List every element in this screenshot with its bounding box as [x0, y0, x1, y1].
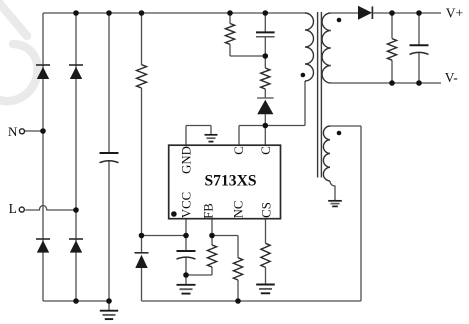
node V- junctions [389, 80, 395, 86]
svg-text:GND: GND [179, 146, 193, 174]
wire second bridge column [75, 13, 77, 301]
diode bridge D1 [36, 64, 50, 66]
resistor FB upper [233, 258, 242, 280]
wire VCC pin stub [185, 219, 187, 251]
wire bottom-left rail [43, 300, 109, 302]
svg-text:L: L [9, 201, 17, 216]
wire VCC bus [142, 235, 187, 237]
wire left bridge column [42, 13, 44, 301]
node drain [263, 123, 269, 129]
node top rail junctions [73, 10, 79, 16]
svg-text:CS: CS [259, 202, 273, 218]
resistor CS sense [261, 243, 270, 267]
resistor FB lower [207, 245, 216, 267]
ground aux winding [328, 200, 342, 202]
diode bridge D3 [36, 238, 50, 240]
wire V- rail [331, 82, 441, 84]
wire snubber resistor leg [229, 13, 231, 24]
wire output cap legs [418, 13, 420, 45]
wire VCC cap bottom [185, 258, 187, 285]
resistor snubber R [225, 24, 234, 45]
svg-text:V+: V+ [446, 6, 463, 21]
wire FB ground link [186, 274, 212, 276]
svg-text:N: N [8, 124, 18, 139]
diode VCC rectifier [135, 252, 149, 254]
node N junction [40, 128, 46, 134]
svg-text:V-: V- [445, 70, 459, 85]
diode bridge D4 [69, 238, 83, 240]
capacitor output C [410, 44, 429, 46]
wire aux top lead [330, 125, 361, 127]
node FB ground [183, 272, 189, 278]
wire aux return riser [360, 126, 362, 301]
transformer aux winding [323, 126, 330, 181]
op-amp U1 S713XS controller IC body [169, 145, 281, 219]
resistor startup R [137, 65, 147, 88]
ground CS resistor [256, 284, 275, 286]
resistor clamp series R [261, 68, 270, 89]
wire snubber bottom link [230, 55, 265, 57]
wire N input [25, 130, 43, 132]
wire startup column [141, 13, 143, 65]
node V+ junctions [389, 10, 395, 16]
transformer primary winding [305, 13, 314, 81]
node FB rail [235, 298, 241, 304]
ground bulk rail [100, 310, 118, 312]
wire bulk cap column top [108, 13, 110, 153]
transformer secondary phase dot [337, 18, 342, 23]
wire FB upper resistor to rail [237, 280, 239, 301]
diode clamp D [257, 97, 274, 99]
wire FB bus [212, 235, 238, 237]
wire top DC rail [43, 12, 305, 14]
capacitor VCC C [177, 250, 196, 252]
transformer primary phase dot [301, 73, 306, 78]
transformer core [317, 12, 319, 178]
wire clamp chain [264, 13, 266, 32]
svg-text:NC: NC [231, 201, 245, 219]
node bottom-left junctions [73, 298, 79, 304]
svg-text:VCC: VCC [179, 192, 193, 218]
wire primary bottom lead [304, 81, 306, 126]
capacitor bulk C [100, 152, 119, 154]
diode output rectifier [358, 6, 372, 20]
node snubber bottom [263, 53, 269, 59]
ground VCC cap [177, 284, 196, 286]
wire FB pin stub [211, 219, 213, 245]
terminal N [20, 129, 25, 134]
wire bottom-right rail [142, 300, 362, 302]
wire GND pin stub [185, 126, 187, 146]
transformer secondary winding [322, 13, 331, 83]
wire ground stem left [108, 301, 110, 311]
node L junction [73, 207, 79, 213]
svg-text:S713XS: S713XS [205, 172, 257, 189]
wire aux bottom lead [330, 181, 335, 200]
node VCC bus junctions [139, 233, 145, 239]
svg-text:FB: FB [202, 203, 216, 219]
wire output resistor legs [391, 13, 393, 39]
wire bulk cap column bottom [108, 160, 110, 301]
wire C pins to drain node [238, 126, 240, 146]
watermark letter fragment [0, 0, 38, 101]
capacitor snubber C [256, 31, 275, 33]
wire output to V+ [373, 12, 441, 14]
wire L input with hop [25, 206, 76, 211]
wire CS pin stub [265, 219, 267, 243]
transformer aux phase dot [337, 131, 342, 136]
ground IC GND pin [205, 134, 218, 136]
svg-text:C: C [259, 146, 273, 155]
diode bridge D2 [69, 64, 83, 66]
terminal L [19, 207, 24, 212]
pin 1 marker [171, 211, 177, 217]
wire secondary top lead [331, 12, 358, 14]
svg-text:C: C [232, 146, 246, 155]
resistor output load [387, 39, 396, 61]
